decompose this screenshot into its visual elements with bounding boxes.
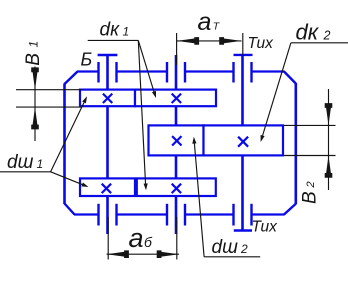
dimension B2 line — [328, 89, 330, 190]
svg-text:a: a — [198, 8, 212, 36]
dimension a_b extension line right — [176, 217, 178, 260]
dimension B1 arrow top — [31, 67, 39, 89]
label a_b — [129, 223, 154, 253]
label dk2 with underline — [291, 19, 348, 44]
housing right wall — [294, 83, 297, 204]
dimension a_b line — [107, 253, 179, 255]
center cross pinion2 middle — [172, 136, 181, 145]
shaft 1 top end cap — [98, 54, 118, 56]
label dk1 with underline — [88, 20, 139, 41]
svg-text:1: 1 — [37, 157, 44, 171]
gear wheel2 middle rectangle — [204, 125, 284, 155]
leader dk1 to top wheel — [138, 40, 158, 98]
bearing strokes shaft3 bottom — [234, 204, 252, 226]
center cross pinion1 bottom — [102, 184, 111, 193]
center cross wheel1 bottom — [172, 184, 181, 193]
shaft 3 (slow) — [241, 55, 244, 231]
dimension a_t arrow left — [177, 37, 199, 45]
label a_t — [198, 8, 221, 36]
svg-text:В: В — [299, 191, 320, 204]
dimension a_t arrow right — [219, 37, 241, 45]
leader dsh2 to pinion2 — [192, 137, 204, 257]
svg-text:2: 2 — [240, 242, 248, 256]
dimension a_t line — [177, 40, 242, 42]
bearing strokes shaft2 top — [167, 62, 185, 83]
gear wheel1 top rectangle — [135, 90, 216, 107]
leader dk1 to bottom wheel — [138, 40, 148, 190]
gear pinion2 middle rectangle — [149, 125, 204, 155]
gear wheel1 bottom rectangle — [137, 178, 216, 196]
label B1 — [23, 41, 44, 66]
leader dsh1 to top pinion — [51, 95, 89, 171]
dimension a_t extension line right — [242, 33, 244, 55]
bearing strokes shaft1 bottom — [99, 204, 117, 226]
center cross pinion1 top — [103, 94, 112, 103]
svg-text:1: 1 — [123, 25, 130, 39]
shaft 3 top end cap — [234, 54, 253, 56]
label dsh1 with underline — [0, 152, 51, 173]
svg-text:dш: dш — [7, 152, 34, 173]
svg-text:В: В — [23, 53, 44, 66]
bearing strokes shaft1 top — [99, 62, 117, 83]
dimension B1 arrow bottom — [31, 107, 39, 129]
svg-text:dк: dк — [296, 19, 320, 44]
leader dsh1 to bottom pinion — [51, 172, 90, 189]
dimension B1 line — [34, 67, 36, 142]
svg-text:Тих: Тих — [252, 219, 279, 236]
gear pinion1 top rectangle — [80, 90, 135, 107]
housing top-left chamfer — [65, 72, 78, 85]
housing left wall — [63, 84, 66, 205]
bottom bearing support line segments y=214.5 — [74, 213, 285, 215]
center cross wheel2 middle — [238, 137, 248, 147]
label dsh2 with underline — [204, 237, 260, 258]
leader dk2 to wheel2 — [259, 43, 291, 143]
svg-text:2: 2 — [323, 28, 331, 42]
dimension B2 arrow bottom — [325, 156, 333, 178]
dimension a_t extension line left — [176, 33, 178, 65]
dimension B1 extension lines — [16, 90, 81, 107]
shaft 2 (intermediate) — [175, 55, 178, 234]
bearing strokes shaft3 top — [234, 62, 252, 83]
gear pinion1 bottom rectangle — [80, 178, 135, 196]
center cross wheel1 top — [172, 94, 181, 103]
dimension B2 extension lines — [284, 125, 336, 155]
svg-text:1: 1 — [27, 41, 41, 48]
housing bottom-right chamfer — [284, 204, 296, 215]
svg-text:2: 2 — [305, 181, 317, 188]
dimension a_b arrow right — [157, 250, 179, 258]
shaft 1 (fast) — [106, 55, 109, 234]
svg-text:б: б — [144, 234, 153, 250]
svg-text:Т: Т — [213, 20, 221, 32]
svg-text:Тих: Тих — [248, 35, 275, 52]
top bearing support line segments y=71.5 — [77, 70, 285, 72]
shaft 3 bottom end cap — [234, 229, 252, 231]
dimension B2 arrow top — [325, 103, 333, 125]
housing top-right chamfer — [284, 72, 296, 84]
bearing strokes shaft2 bottom — [167, 204, 185, 226]
svg-text:dш: dш — [212, 237, 239, 258]
housing bottom-left chamfer — [65, 204, 75, 215]
label B2 — [299, 181, 320, 204]
dimension a_b arrow left — [107, 250, 129, 258]
svg-text:Б: Б — [81, 50, 93, 70]
dimension a_b extension line left — [107, 217, 109, 260]
svg-text:a: a — [129, 223, 144, 253]
svg-text:dк: dк — [100, 20, 121, 41]
